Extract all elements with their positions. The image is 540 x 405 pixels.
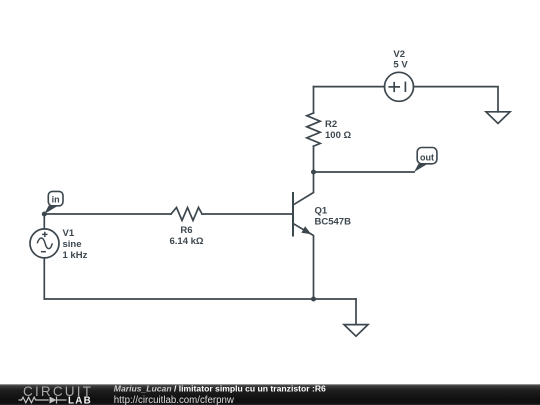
svg-text:sine: sine [63, 239, 82, 250]
svg-text:1 kHz: 1 kHz [63, 250, 88, 261]
svg-text:in: in [52, 195, 60, 205]
svg-text:Marius_Lucan / limitator simpl: Marius_Lucan / limitator simplu cu un tr… [114, 384, 326, 394]
svg-text:BC547B: BC547B [315, 216, 352, 227]
svg-text:http://circuitlab.com/cferpnw: http://circuitlab.com/cferpnw [114, 395, 235, 405]
svg-text:out: out [420, 152, 434, 162]
svg-text:100 Ω: 100 Ω [325, 130, 351, 141]
svg-text:V2: V2 [393, 49, 405, 60]
svg-text:R2: R2 [325, 119, 337, 130]
svg-text:6.14 kΩ: 6.14 kΩ [169, 236, 203, 247]
svg-text:V1: V1 [63, 228, 75, 239]
svg-text:5 V: 5 V [393, 60, 408, 71]
svg-text:Q1: Q1 [315, 205, 328, 216]
svg-text:LAB: LAB [68, 395, 92, 405]
svg-text:R6: R6 [180, 225, 192, 236]
